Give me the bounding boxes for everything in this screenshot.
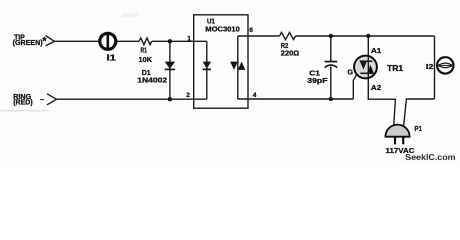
- svg-text:*: *: [42, 35, 47, 47]
- svg-text:4: 4: [253, 92, 257, 99]
- svg-text:6: 6: [249, 27, 253, 34]
- svg-text:1N4002: 1N4002: [137, 75, 167, 84]
- svg-text:P1: P1: [415, 124, 423, 133]
- svg-text:1: 1: [187, 35, 191, 42]
- svg-text:I2: I2: [426, 62, 434, 71]
- svg-text:A1: A1: [371, 46, 381, 55]
- svg-text:39pF: 39pF: [307, 76, 328, 85]
- svg-text:SeekIC.com: SeekIC.com: [405, 152, 456, 162]
- svg-text:I1: I1: [107, 53, 117, 62]
- svg-text:2: 2: [186, 92, 190, 99]
- svg-text:A2: A2: [371, 83, 381, 92]
- svg-text:(GREEN): (GREEN): [13, 38, 44, 47]
- svg-text:R1: R1: [141, 45, 148, 54]
- svg-text:220Ω: 220Ω: [281, 48, 300, 57]
- svg-text:TR1: TR1: [387, 64, 404, 73]
- svg-text:10K: 10K: [139, 55, 153, 64]
- svg-text:(RED): (RED): [13, 98, 33, 107]
- svg-text:MOC3010: MOC3010: [205, 24, 240, 33]
- svg-text:G: G: [347, 67, 353, 76]
